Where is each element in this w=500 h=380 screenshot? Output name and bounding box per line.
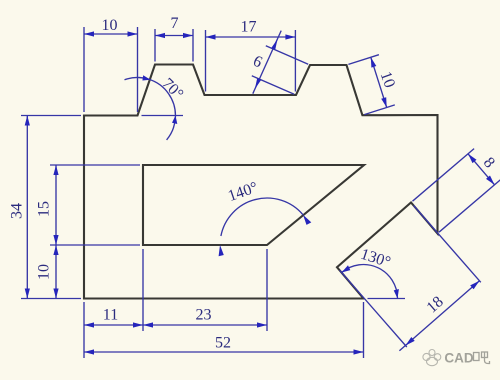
svg-text:10: 10 — [102, 17, 118, 34]
svg-text:52: 52 — [215, 335, 231, 352]
svg-text:17: 17 — [241, 19, 257, 36]
svg-text:15: 15 — [36, 201, 53, 217]
svg-text:23: 23 — [196, 307, 212, 324]
svg-text:34: 34 — [9, 203, 26, 219]
svg-text:CAD: CAD — [444, 351, 473, 366]
svg-text:10: 10 — [36, 264, 53, 280]
svg-text:7: 7 — [171, 15, 179, 32]
svg-text:11: 11 — [103, 306, 118, 323]
